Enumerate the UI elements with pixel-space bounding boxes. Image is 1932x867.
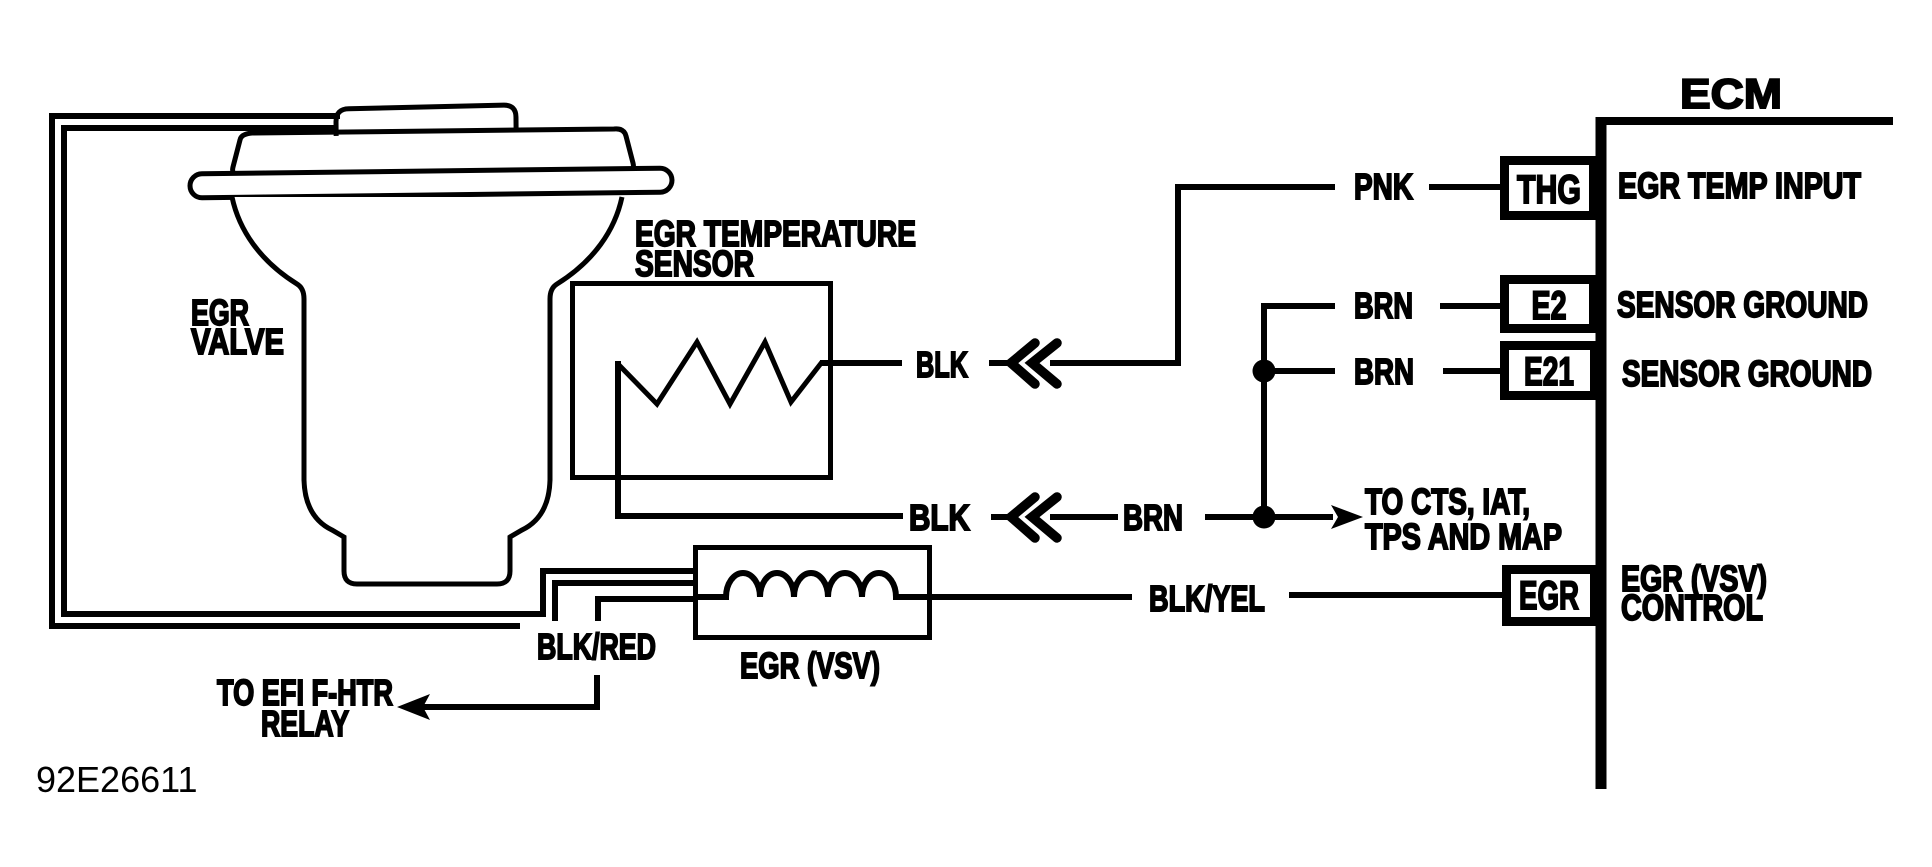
wire stub to connector upper — [989, 360, 1016, 366]
EGR valve flange — [190, 168, 672, 198]
svg-text:BLK/RED: BLK/RED — [537, 626, 656, 667]
wire PNK to THG pin — [1429, 184, 1502, 190]
svg-text:BLK: BLK — [909, 497, 970, 538]
wire EGR VSV pin 2 stub BLK/RED — [555, 583, 695, 621]
svg-text:EGR (VSV): EGR (VSV) — [740, 645, 880, 686]
svg-text:TPS AND MAP: TPS AND MAP — [1365, 516, 1562, 557]
svg-text:VALVE: VALVE — [191, 321, 284, 362]
wire sensor right lead BLK — [820, 360, 902, 366]
wire BRN to E21 — [1264, 368, 1335, 374]
EGR VSV box — [696, 548, 930, 638]
wire to EFI F-HTR relay — [410, 675, 597, 707]
inductor coil EGR VSV — [695, 573, 932, 597]
wire BRN to junction and arrow — [1205, 514, 1333, 520]
junction node E21 — [1253, 360, 1276, 383]
svg-text:BRN: BRN — [1354, 351, 1414, 392]
wire PNK from connector to THG — [1050, 187, 1335, 363]
arrowhead to CTS IAT TPS MAP — [1331, 505, 1363, 529]
connector chevrons upper — [1011, 343, 1057, 384]
pin box E2 — [1505, 280, 1594, 329]
wire sensor left lead BLK — [615, 361, 903, 516]
svg-text:BLK/YEL: BLK/YEL — [1149, 578, 1265, 619]
wire BLK/YEL to EGR pin — [1289, 592, 1504, 598]
wire loop inner to EGR VSV pin 1 — [64, 128, 695, 614]
wire EGR VSV coil lead left — [598, 599, 695, 621]
svg-text:EGR TEMP INPUT: EGR TEMP INPUT — [1618, 165, 1861, 206]
svg-text:SENSOR GROUND: SENSOR GROUND — [1617, 284, 1868, 325]
svg-text:EGR: EGR — [1519, 574, 1579, 618]
svg-text:BRN: BRN — [1354, 285, 1413, 326]
ECM top line — [1596, 117, 1893, 125]
EGR temperature sensor box — [573, 284, 831, 478]
ECM vertical line — [1596, 117, 1607, 789]
svg-text:BLK: BLK — [916, 344, 968, 385]
svg-text:CONTROL: CONTROL — [1621, 587, 1763, 628]
wire from connector lower — [1050, 514, 1118, 520]
svg-text:RELAY: RELAY — [261, 703, 349, 744]
svg-text:E21: E21 — [1524, 350, 1574, 394]
junction node BRN — [1253, 506, 1276, 529]
wire BRN to E21 pin — [1443, 368, 1502, 374]
EGR valve diaphragm disc — [233, 129, 634, 175]
resistor element — [618, 342, 822, 404]
wire BRN to E2 pin — [1440, 303, 1502, 309]
pin box THG — [1505, 161, 1594, 216]
EGR valve body — [232, 197, 622, 584]
svg-text:PNK: PNK — [1354, 166, 1413, 207]
svg-text:SENSOR: SENSOR — [635, 243, 754, 284]
wire stub to connector lower — [991, 514, 1016, 520]
wire BLK/YEL left — [930, 594, 1132, 600]
svg-text:SENSOR GROUND: SENSOR GROUND — [1622, 353, 1872, 394]
pin box EGR — [1507, 570, 1595, 622]
EGR valve cap — [336, 105, 516, 136]
svg-text:E2: E2 — [1532, 284, 1567, 328]
svg-text:92E26611: 92E26611 — [36, 759, 198, 800]
wire BRN to E2 — [1264, 303, 1335, 517]
pin box E21 — [1505, 346, 1595, 396]
svg-text:BRN: BRN — [1123, 497, 1183, 538]
connector chevrons lower — [1011, 497, 1057, 538]
arrowhead to EFI F-HTR relay — [397, 694, 430, 720]
svg-text:ECM: ECM — [1680, 70, 1782, 117]
svg-text:THG: THG — [1517, 168, 1581, 212]
wire loop outer — [52, 116, 520, 626]
